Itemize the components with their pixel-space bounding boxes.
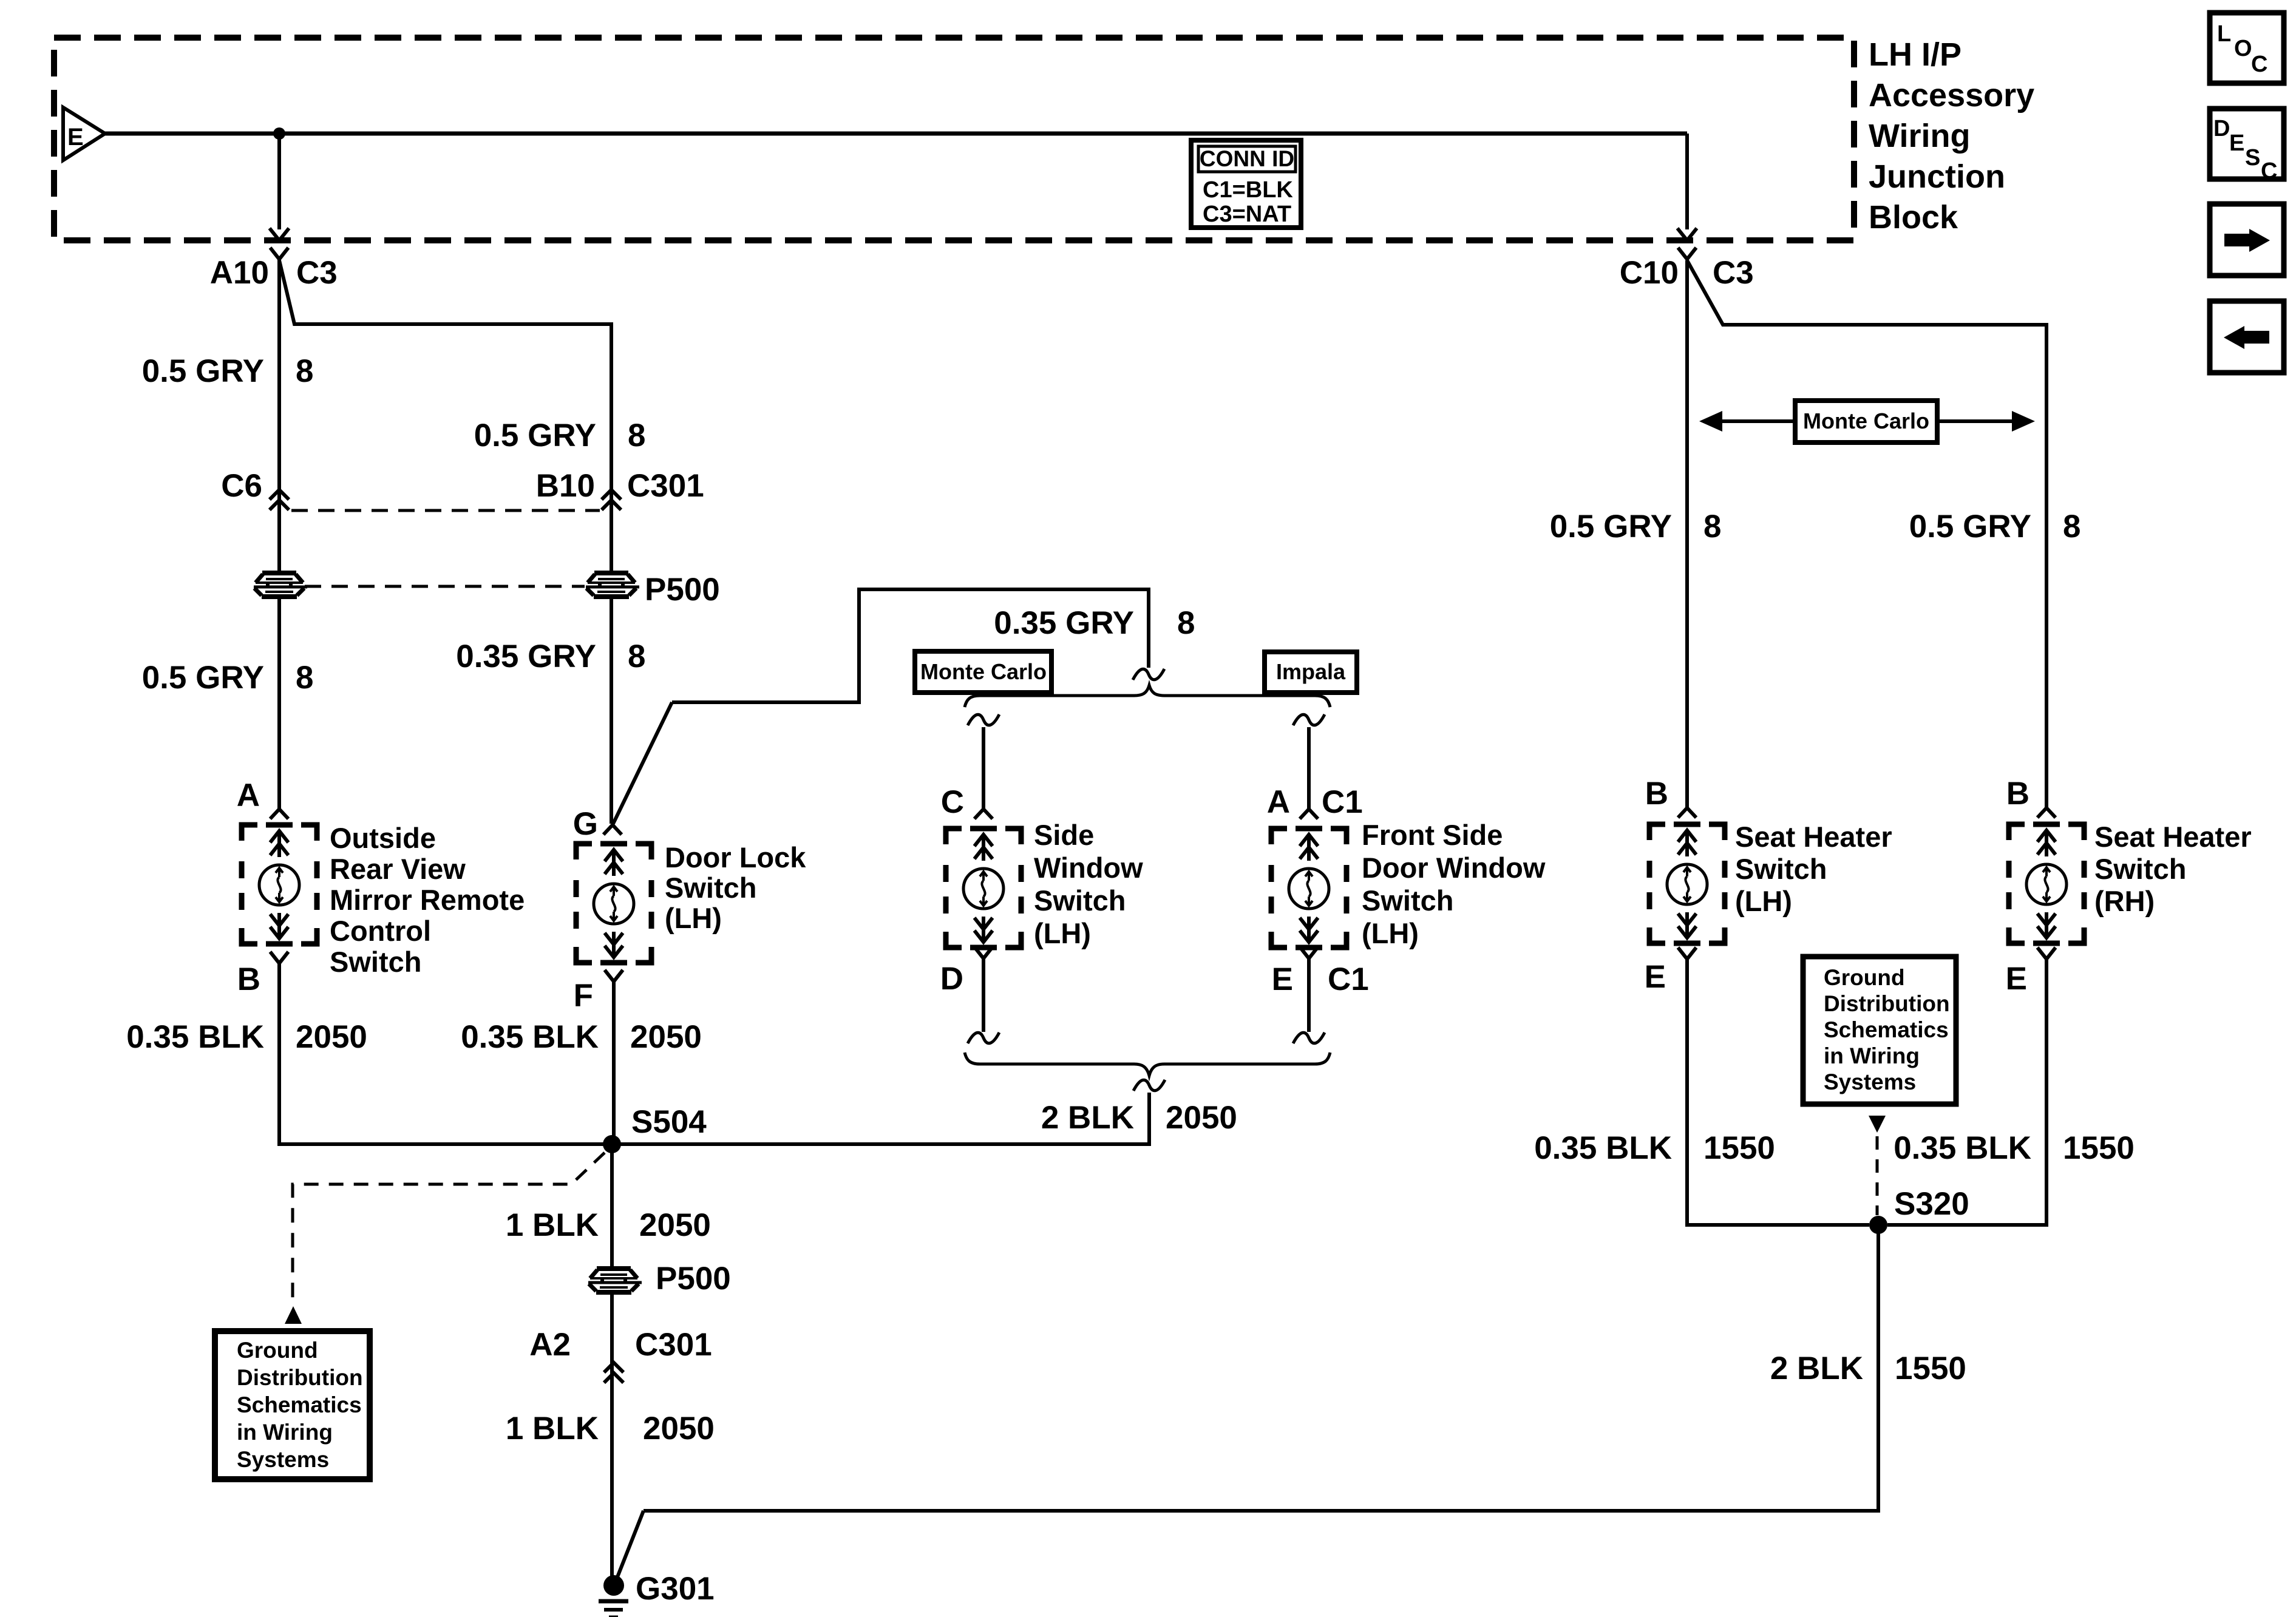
break symbol Impala branch: [1293, 714, 1325, 725]
variant tag box Monte Carlo (top right) with arrows: [1795, 401, 1937, 442]
junction S320: [1869, 1216, 1887, 1234]
wire: 1 BLK 2050 S504 to G301: [610, 1144, 614, 1577]
svg-text:0.5 GRY: 0.5 GRY: [142, 660, 264, 696]
svg-text:Switch: Switch: [1735, 853, 1827, 885]
svg-text:A: A: [237, 778, 260, 813]
break symbol below E: [1293, 1032, 1325, 1043]
wire: front door window switch E down: [1307, 958, 1311, 1032]
svg-text:E: E: [2006, 961, 2027, 997]
connector arrow into C3 at A10: [270, 228, 289, 240]
svg-text:8: 8: [296, 660, 313, 696]
svg-text:0.5 GRY: 0.5 GRY: [1550, 509, 1672, 544]
svg-text:in Wiring: in Wiring: [1824, 1043, 1920, 1068]
svg-text:C6: C6: [221, 468, 262, 504]
svg-text:0.35 GRY: 0.35 GRY: [994, 605, 1134, 641]
connector flare pin C of side window switch: [974, 809, 993, 819]
note arrow (right): [1869, 1116, 1886, 1133]
svg-text:1 BLK: 1 BLK: [506, 1207, 599, 1243]
svg-text:Door Window: Door Window: [1362, 852, 1546, 884]
note box: Ground Distribution Schematics in Wiring Systems (left): [215, 1331, 370, 1479]
svg-text:C1=BLK: C1=BLK: [1203, 177, 1293, 203]
connector flare C10/C3: [1678, 248, 1696, 259]
svg-text:Schematics: Schematics: [237, 1392, 362, 1417]
switch S3: Side Window Switch (LH): [946, 829, 1021, 947]
svg-text:Impala: Impala: [1276, 659, 1346, 684]
svg-text:0.5 GRY: 0.5 GRY: [1909, 509, 2031, 544]
svg-text:Side: Side: [1034, 819, 1094, 851]
break symbol Monte Carlo branch: [968, 714, 999, 725]
dashed note tap to S320: [1876, 1136, 1879, 1215]
svg-text:Ground: Ground: [1824, 965, 1905, 990]
svg-text:2 BLK: 2 BLK: [1770, 1351, 1863, 1386]
svg-text:8: 8: [628, 639, 645, 674]
svg-text:Wiring: Wiring: [1869, 118, 1970, 154]
svg-text:8: 8: [1703, 509, 1721, 544]
prev-page arrow box: [2210, 301, 2284, 373]
wire: 0.35 GRY 8 branch to window switches: [672, 589, 1149, 702]
connector flare pin A of front door window switch: [1300, 809, 1318, 819]
wire: 2 BLK 1550 S320 to ground run: [644, 1225, 1878, 1511]
svg-text:C: C: [2251, 52, 2267, 77]
svg-text:(RH): (RH): [2094, 885, 2155, 917]
wire: 2 BLK 2050 to S504: [620, 1093, 1149, 1144]
svg-text:P500: P500: [656, 1261, 731, 1297]
svg-text:Seat Heater: Seat Heater: [1735, 821, 1892, 853]
note arrow (left): [285, 1306, 302, 1324]
svg-text:2050: 2050: [1166, 1100, 1237, 1136]
wire: branch A10 to door lock switch drop: [279, 260, 611, 824]
svg-text:Switch: Switch: [2094, 853, 2186, 885]
CONN ID table: [1191, 140, 1301, 228]
svg-text:A10: A10: [210, 255, 269, 291]
svg-text:Front Side: Front Side: [1362, 819, 1503, 851]
svg-text:Systems: Systems: [1824, 1070, 1916, 1094]
svg-text:0.35 BLK: 0.35 BLK: [461, 1019, 599, 1055]
svg-text:2050: 2050: [639, 1207, 711, 1243]
svg-text:S320: S320: [1894, 1186, 1969, 1222]
svg-text:0.35 GRY: 0.35 GRY: [456, 639, 596, 674]
svg-text:1550: 1550: [1703, 1130, 1775, 1166]
svg-text:Switch: Switch: [1362, 884, 1453, 917]
svg-text:C301: C301: [627, 468, 704, 504]
connector flare pin D of side window switch: [974, 947, 993, 958]
svg-text:in Wiring: in Wiring: [237, 1420, 333, 1445]
svg-text:2 BLK: 2 BLK: [1041, 1100, 1134, 1136]
svg-text:Window: Window: [1034, 852, 1143, 884]
wire: 0.5 GRY circuit 8 left drop: [277, 259, 281, 809]
svg-text:C1: C1: [1322, 784, 1363, 820]
svg-text:8: 8: [628, 418, 645, 453]
dashed note tap from S504: [293, 1153, 605, 1304]
svg-text:S504: S504: [631, 1104, 707, 1140]
wire: 0.35 BLK 2050 door lock F to S504: [612, 981, 616, 1144]
svg-text:F: F: [574, 978, 593, 1014]
connector flare pin B of seat heater RH: [2037, 808, 2056, 818]
switch S5: Seat Heater Switch (LH): [1649, 824, 1725, 943]
connector flare pin F of door lock switch: [605, 970, 623, 981]
switch S1: Outside Rear View Mirror Remote Control Switch: [242, 825, 317, 944]
svg-text:G: G: [573, 806, 598, 842]
svg-text:C: C: [941, 784, 964, 820]
svg-text:Door Lock: Door Lock: [665, 841, 806, 873]
switch S2: Door Lock Switch (LH): [576, 844, 651, 963]
connector flare pin E of seat heater RH: [2037, 947, 2056, 959]
svg-text:S: S: [2245, 145, 2260, 171]
inline connector A2 C301: [604, 1363, 623, 1372]
triangle connector E (junction block feed): [63, 107, 105, 160]
svg-text:C301: C301: [635, 1327, 712, 1363]
svg-text:E: E: [67, 124, 84, 151]
brace split (upper): [965, 685, 1330, 707]
svg-text:0.35 BLK: 0.35 BLK: [1894, 1130, 2031, 1166]
svg-text:LH I/P: LH I/P: [1869, 36, 1961, 73]
svg-text:2050: 2050: [630, 1019, 702, 1055]
svg-text:B: B: [1645, 776, 1668, 812]
svg-text:C3=NAT: C3=NAT: [1203, 202, 1291, 227]
wire: 0.5 GRY 8 to seat heater RH: [1687, 260, 2046, 808]
svg-text:B10: B10: [536, 468, 595, 504]
note box: Ground Distribution Schematics in Wiring Systems (right): [1803, 957, 1956, 1104]
svg-text:Outside: Outside: [330, 822, 436, 854]
brace merge (lower): [965, 1053, 1330, 1076]
connector flare pin B of seat heater LH: [1678, 808, 1696, 818]
svg-text:B: B: [2006, 776, 2029, 812]
svg-text:0.35 BLK: 0.35 BLK: [1534, 1130, 1672, 1166]
svg-text:D: D: [940, 961, 963, 997]
connector flare pin E of seat heater LH: [1678, 947, 1696, 959]
connector arrow into C3 at C10: [1677, 228, 1697, 240]
svg-text:(LH): (LH): [1362, 917, 1419, 949]
wire: junction block internal feed bus: [105, 132, 1687, 136]
wire: 0.35 BLK 1550 seat RH to S320: [1887, 959, 2046, 1225]
svg-text:(LH): (LH): [665, 902, 722, 934]
svg-text:Control: Control: [330, 915, 431, 947]
wire: drop to pin C10: [1685, 134, 1689, 229]
ground G301: [603, 1575, 624, 1596]
svg-text:Switch: Switch: [330, 946, 421, 978]
svg-text:0.35 BLK: 0.35 BLK: [126, 1019, 264, 1055]
node: feed split to A10: [273, 127, 285, 140]
connector flare A10/C3: [270, 248, 288, 259]
svg-text:A: A: [1267, 784, 1290, 820]
wire: side window switch D down: [982, 958, 985, 1032]
svg-text:O: O: [2234, 36, 2252, 61]
svg-text:Monte Carlo: Monte Carlo: [1803, 408, 1929, 433]
connector flare pin A of mirror switch: [270, 809, 288, 819]
svg-text:C1: C1: [1328, 961, 1369, 997]
wire: 0.35 BLK 2050 from mirror switch B to S504: [279, 963, 603, 1144]
svg-text:Mirror Remote: Mirror Remote: [330, 884, 525, 916]
svg-text:B: B: [237, 961, 260, 997]
svg-text:C: C: [2261, 158, 2277, 184]
svg-text:E: E: [2229, 131, 2244, 156]
svg-text:Switch: Switch: [1034, 884, 1126, 917]
inline connector B10 C301: [602, 490, 621, 500]
svg-text:0.5 GRY: 0.5 GRY: [142, 353, 264, 389]
svg-text:1 BLK: 1 BLK: [506, 1411, 599, 1446]
dashed tie line grommet P500: [305, 585, 585, 588]
wire: 0.35 BLK 1550 seat LH to S320: [1687, 959, 1869, 1225]
svg-text:E: E: [1272, 961, 1293, 997]
svg-text:(LH): (LH): [1735, 885, 1792, 917]
svg-text:G301: G301: [636, 1571, 715, 1607]
svg-text:0.5 GRY: 0.5 GRY: [474, 418, 596, 453]
wire: Monte Carlo branch to side window switch: [982, 727, 985, 809]
svg-text:C3: C3: [1713, 255, 1754, 291]
svg-text:E: E: [1645, 959, 1666, 995]
break symbol below D: [968, 1032, 999, 1043]
svg-text:Distribution: Distribution: [237, 1365, 363, 1390]
svg-text:Seat Heater: Seat Heater: [2094, 821, 2252, 853]
variant tag box Impala: [1265, 652, 1357, 693]
wire: drop to pin A10: [277, 134, 281, 229]
DESC reference box: [2210, 109, 2284, 179]
grommet P500 (lower): [588, 1267, 642, 1292]
svg-text:P500: P500: [645, 572, 720, 608]
svg-text:8: 8: [2063, 509, 2080, 544]
switch S6: Seat Heater Switch (RH): [2009, 824, 2084, 943]
svg-text:A2: A2: [529, 1327, 571, 1363]
next-page arrow box: [2210, 204, 2284, 276]
junction S504: [603, 1135, 621, 1153]
svg-text:C10: C10: [1620, 255, 1679, 291]
wire: slant into G301: [617, 1511, 644, 1577]
svg-text:D: D: [2213, 116, 2230, 141]
grommet P500 (right): [586, 571, 639, 597]
wire: 0.5 GRY 8 to seat heater LH: [1685, 260, 1689, 808]
switch S4: Front Side Door Window Switch (LH): [1271, 829, 1347, 947]
wire: window switch branch slant into G: [613, 702, 672, 824]
svg-text:Rear View: Rear View: [330, 853, 466, 885]
dashed tie line connector C301: [291, 509, 600, 512]
connector flare pin G of door lock switch: [603, 825, 622, 835]
wire: applicability arrow left segment: [1721, 419, 1795, 423]
svg-text:Systems: Systems: [237, 1447, 329, 1472]
svg-text:(LH): (LH): [1034, 917, 1091, 949]
svg-text:L: L: [2217, 21, 2231, 47]
svg-text:8: 8: [1177, 605, 1195, 641]
svg-text:Block: Block: [1869, 199, 1958, 236]
grommet P500 (left): [254, 571, 307, 597]
svg-text:Schematics: Schematics: [1824, 1017, 1949, 1042]
svg-text:C3: C3: [296, 255, 338, 291]
svg-text:2050: 2050: [296, 1019, 367, 1055]
svg-text:Accessory: Accessory: [1869, 77, 2034, 114]
variant tag box Monte Carlo (mid): [915, 651, 1051, 693]
svg-text:8: 8: [296, 353, 313, 389]
svg-text:Junction: Junction: [1869, 158, 2005, 195]
break symbol above 2 BLK: [1133, 1080, 1165, 1091]
svg-text:2050: 2050: [643, 1411, 715, 1446]
junction block dashed box: LH I/P Accessory Wiring Junction Block: [54, 38, 1854, 240]
svg-text:CONN ID: CONN ID: [1200, 146, 1294, 171]
svg-text:Monte Carlo: Monte Carlo: [920, 659, 1047, 684]
inline connector C6 (C301): [270, 490, 289, 500]
svg-text:1550: 1550: [2063, 1130, 2135, 1166]
break symbol on branch wire: [1133, 669, 1164, 680]
wire: Impala branch to front door window switch: [1307, 727, 1311, 809]
svg-text:Switch: Switch: [665, 872, 756, 904]
connector flare pin B of mirror switch: [270, 952, 288, 963]
connector flare pin E of front door window switch: [1300, 947, 1318, 958]
LOC reference box: [2210, 13, 2284, 83]
wire: applicability arrow right segment: [1937, 419, 2013, 423]
svg-text:Ground: Ground: [237, 1338, 318, 1363]
svg-text:1550: 1550: [1895, 1351, 1966, 1386]
svg-text:Distribution: Distribution: [1824, 991, 1950, 1016]
